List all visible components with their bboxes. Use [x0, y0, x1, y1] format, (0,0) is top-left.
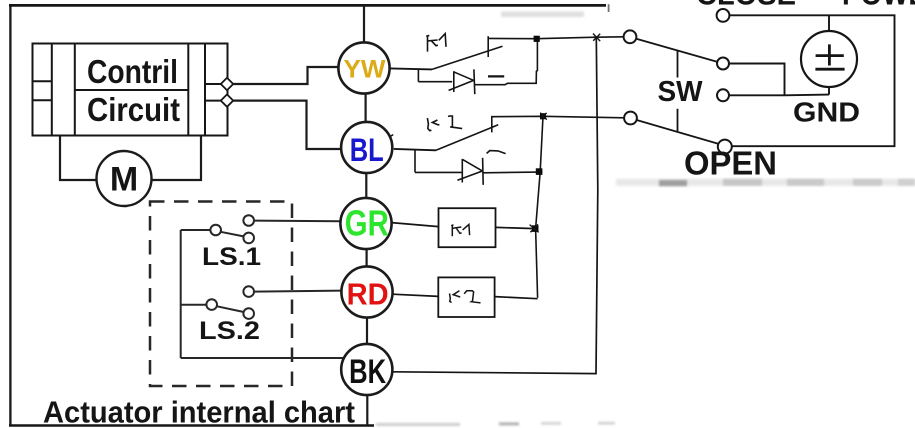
- svg-text:GND: GND: [793, 97, 860, 128]
- svg-text:LS.2: LS.2: [199, 317, 260, 345]
- svg-text:Circuit: Circuit: [87, 91, 180, 128]
- svg-text:POWER: POWER: [842, 0, 915, 12]
- svg-text:OPEN: OPEN: [684, 145, 777, 182]
- svg-text:SW: SW: [658, 76, 704, 108]
- svg-text:RD: RD: [347, 276, 389, 311]
- svg-text:GR: GR: [345, 202, 389, 243]
- svg-text:M: M: [110, 161, 138, 199]
- svg-text:BK: BK: [349, 353, 386, 391]
- svg-text:LS.1: LS.1: [202, 243, 261, 271]
- svg-text:YW: YW: [344, 55, 386, 83]
- svg-text:BL: BL: [350, 132, 384, 168]
- svg-text:CLOSE: CLOSE: [696, 0, 796, 12]
- svg-text:Actuator internal chart: Actuator internal chart: [43, 395, 355, 428]
- svg-text:Contril: Contril: [87, 53, 178, 90]
